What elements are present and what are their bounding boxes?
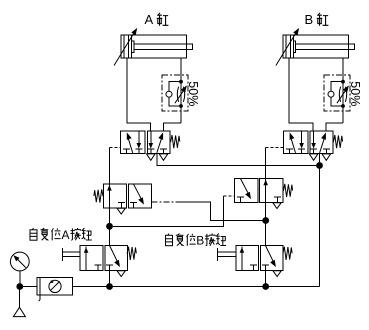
wire: cylinder A left port to 5/2 valve A port 4 <box>127 58 151 131</box>
cylinder A barrel <box>121 35 187 58</box>
wire: supply riser down to rail <box>319 166 321 287</box>
svg-text:A: A <box>62 228 70 242</box>
3/2 valve A pilot line dash-dot to node B <box>152 201 179 203</box>
svg-text:A: A <box>145 12 154 27</box>
node A junction <box>106 223 113 230</box>
cylinder B cushion-adjust arrow <box>276 33 296 66</box>
3/2 valve A return spring (left) <box>94 189 103 202</box>
label "自复位A按钮" <box>30 228 92 242</box>
button valve B body <box>236 245 259 270</box>
label "自复位B按钮" <box>166 234 227 248</box>
5/2 valve B exhaust port 5 silencer <box>309 154 318 160</box>
5/2 valve B exhaust port 3 silencer <box>322 154 331 160</box>
wire: 3/2 valve B down to node B <box>265 202 267 220</box>
flow control valve A check-valve branch <box>169 82 181 106</box>
wire: flow control A down to 5/2 valve A port 2 <box>164 123 182 131</box>
button valve B exhaust silencer <box>273 271 281 277</box>
compressed air source <box>19 287 21 308</box>
flow control valve B check-valve branch <box>331 82 343 106</box>
flow control valve A check ball <box>166 91 172 97</box>
button valve A body <box>80 245 103 270</box>
flow control valve B check ball <box>328 91 334 97</box>
flow control valve B node bottom <box>341 104 345 108</box>
flow control valve B throttle <box>339 87 346 102</box>
5/2 valve A exhaust port 5 silencer <box>147 154 156 160</box>
pressure gauge <box>10 252 29 271</box>
wire: 5/2 valve B supply P down to manifold node <box>319 153 321 165</box>
wire: 3/2 valve A down to node A <box>109 208 111 227</box>
5/2 valve A body <box>121 131 146 153</box>
air service unit <box>37 277 73 295</box>
button valve B return spring <box>283 247 292 260</box>
3/2 pilot valve B body <box>235 179 258 203</box>
wire: flow control B down to 5/2 valve B port 2 <box>326 123 343 131</box>
wire: 5/2 valve A supply P to manifold <box>157 153 320 165</box>
button valve B push button <box>218 248 236 261</box>
3/2 valve A rest box (2-3 exhaust) <box>134 184 142 200</box>
5/2 valve B body <box>283 131 308 153</box>
svg-text:50%: 50% <box>186 81 200 106</box>
5/2 valve A right box flow paths <box>157 137 162 153</box>
wire: supply rail <box>20 286 37 288</box>
5/2 valve B pilot port (dashed) <box>266 147 284 149</box>
button valve A rest box (2-3 exhaust) <box>110 246 118 263</box>
5/2 valve B left box flow paths <box>291 137 296 153</box>
wire: 3/2 valve B output up to 5/2 B pilot <box>265 148 267 179</box>
flow control valve A throttle <box>177 87 184 102</box>
5/2 valve A pilot port (dashed) <box>110 147 121 149</box>
svg-text:50%: 50% <box>348 81 362 106</box>
wire: 3/2 valve A output up to 5/2 A pilot <box>109 148 111 185</box>
wire: node A down to button valve A <box>109 226 111 245</box>
3/2 valve B exhaust silencer <box>273 203 281 209</box>
label "A 缸" <box>145 12 169 27</box>
wire: cylinder B right port down into flow control B <box>342 58 344 123</box>
button valve B pressed box (1-2 open) <box>241 247 243 271</box>
cylinder B barrel <box>283 35 349 58</box>
3/2 pilot valve A body <box>104 184 127 208</box>
3/2 valve B active box (1-2 open) <box>265 179 267 203</box>
svg-text:B: B <box>196 234 204 248</box>
flow control valve B enclosure (dash-dot) <box>324 75 350 111</box>
svg-text:B: B <box>305 12 314 27</box>
button valve A pressed box (1-2 open) <box>85 247 87 271</box>
flow control valve B node top <box>341 80 345 84</box>
button valve A exhaust silencer <box>117 271 125 277</box>
wire: cylinder B left port to 5/2 valve B port 4 <box>289 58 313 131</box>
flow control valve A node top <box>179 80 183 84</box>
3/2 valve A active box (1-2 open) <box>108 184 110 208</box>
manifold node (P supply tee) <box>316 162 323 169</box>
button valve B rest box (2-3 exhaust) <box>266 246 274 263</box>
rail junction at button valve B <box>262 283 269 290</box>
rail junction at gauge <box>16 283 23 290</box>
node B junction <box>262 217 269 224</box>
5/2 valve A exhaust port 3 silencer <box>159 154 168 160</box>
3/2 valve A exhaust silencer <box>117 208 125 214</box>
5/2 valve B return spring <box>333 135 342 148</box>
3/2 valve B return spring (right) <box>283 184 292 197</box>
rail junction at button valve A <box>106 283 113 290</box>
wire: node B down to button valve B <box>265 221 267 246</box>
wire: node A to 3/2 valve B pilot <box>113 196 224 227</box>
cylinder A cushion-adjust arrow <box>114 33 134 66</box>
button valve A return spring <box>127 247 136 260</box>
button valve A push button <box>63 248 81 261</box>
label "B 缸" <box>305 12 329 27</box>
flow control valve A node bottom <box>179 104 183 108</box>
flow control valve A enclosure (dash-dot) <box>162 75 188 111</box>
5/2 valve A left box flow paths <box>128 137 133 153</box>
wire: button valve A supply to rail <box>109 270 111 286</box>
3/2 valve B rest box (2-3 exhaust) <box>241 179 249 195</box>
wire: button valve B supply to rail <box>265 270 267 286</box>
5/2 valve A return spring <box>171 135 180 148</box>
wire: cylinder A right port down into flow control A <box>180 58 182 123</box>
5/2 valve B right box flow paths <box>320 137 325 153</box>
